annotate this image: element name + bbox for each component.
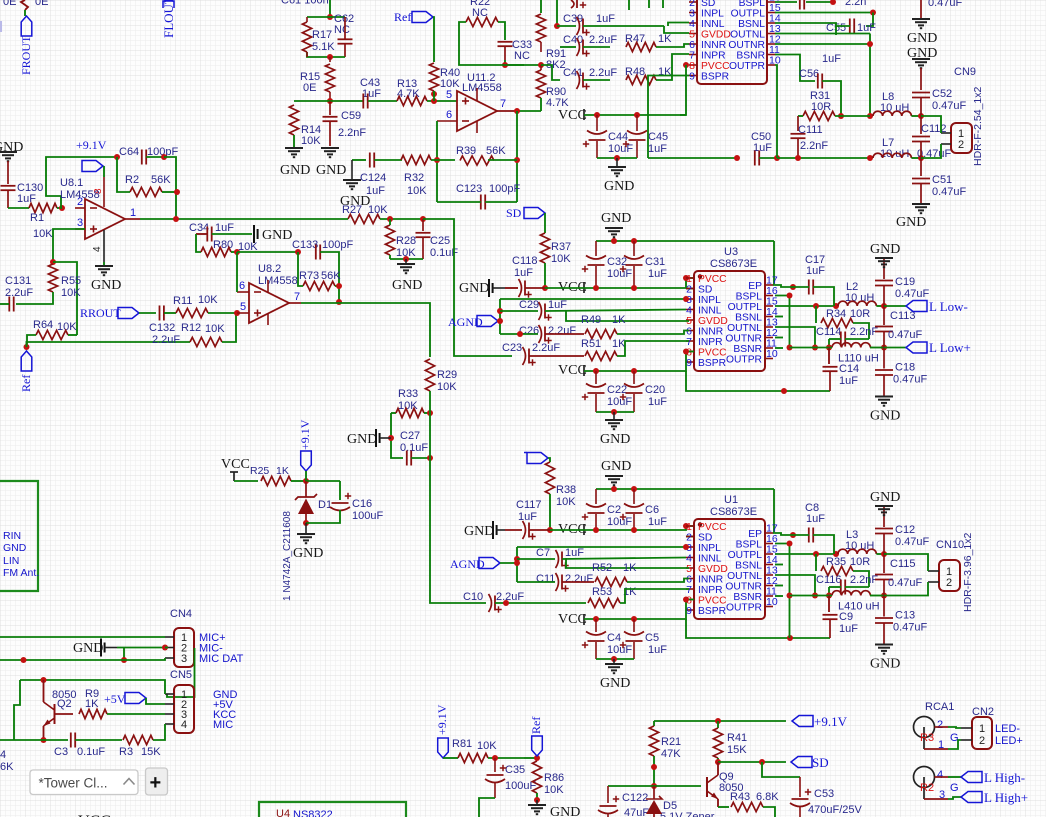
svg-text:+9.1V: +9.1V [435, 704, 449, 735]
svg-text:100pF: 100pF [322, 239, 353, 251]
U3 pin 9 BSPR [686, 361, 694, 363]
resistor R38 10K [545, 462, 554, 494]
svg-text:1uF: 1uF [565, 547, 584, 559]
svg-text:10R: 10R [850, 308, 870, 320]
svg-text:0E: 0E [3, 0, 16, 8]
capacitor C5 1uF [633, 619, 635, 632]
svg-text:MIC: MIC [213, 719, 233, 731]
U2 pin 13 OUTNL [767, 33, 775, 35]
svg-text:2: 2 [979, 735, 985, 747]
svg-text:SD: SD [506, 206, 522, 220]
svg-text:5: 5 [240, 301, 246, 313]
svg-text:GND: GND [3, 542, 27, 554]
resistor R17 5.1K [302, 22, 311, 52]
svg-text:C20: C20 [645, 384, 665, 396]
svg-text:10K: 10K [477, 740, 497, 752]
net flag L High+ [961, 792, 982, 803]
wire R29 bottom lead [429, 391, 431, 413]
wire [775, 285, 809, 287]
wire [390, 258, 423, 260]
U2 pin 6 INNR [689, 43, 697, 45]
wire [231, 251, 237, 253]
wire [806, 1, 833, 3]
wire OUTPL row [775, 553, 838, 555]
wire U2 pin10 down [775, 65, 777, 158]
wire pin6 loop [436, 121, 438, 202]
wire [380, 218, 423, 220]
svg-text:CS8673E: CS8673E [710, 258, 757, 270]
wire [656, 44, 689, 47]
ground GND under R28/C25 [405, 259, 407, 263]
svg-text:OUTPR: OUTPR [726, 355, 762, 366]
wire [500, 310, 538, 312]
node [303, 520, 309, 526]
svg-text:SD: SD [698, 533, 712, 544]
svg-text:3: 3 [181, 653, 187, 665]
svg-text:C31: C31 [645, 256, 665, 268]
U2 pin 12 OUTNR [767, 43, 775, 45]
wire BSNL stub [775, 564, 783, 566]
svg-text:GND: GND [907, 31, 937, 46]
svg-text:C19: C19 [895, 276, 915, 288]
svg-text:C32: C32 [607, 256, 627, 268]
wire [596, 411, 634, 413]
wire AGND rail [498, 320, 500, 322]
svg-text:GND: GND [870, 657, 900, 672]
svg-text:VCC: VCC [78, 813, 111, 817]
node [790, 532, 796, 538]
svg-text:R17: R17 [312, 29, 332, 41]
wire R33/C27 loop [391, 412, 396, 414]
wire [516, 111, 518, 202]
svg-text:0E: 0E [303, 82, 316, 94]
wire CN10 pin1 [884, 554, 928, 571]
wire [617, 331, 689, 335]
IC U2 CS8673E (clipped top) [697, 0, 767, 84]
svg-text:PVCC: PVCC [698, 348, 727, 359]
svg-text:CN10: CN10 [936, 539, 964, 551]
wire [498, 22, 505, 40]
wire VCC rail [584, 114, 686, 116]
wire R2 left [117, 157, 130, 192]
svg-text:INNL: INNL [701, 19, 725, 30]
wire C34/R80 left [196, 234, 201, 252]
wire [835, 115, 870, 117]
node [795, 155, 801, 161]
svg-text:OUTNL: OUTNL [727, 571, 762, 582]
wire [8, 207, 29, 209]
wire RCA1 pin1 to CN2 pin2 [924, 748, 948, 750]
U3 pin 7 INPR [686, 340, 694, 342]
svg-text:OUTPL: OUTPL [728, 302, 763, 313]
wire CN10 pin2 [884, 582, 928, 596]
svg-text:LIN: LIN [3, 555, 19, 567]
svg-text:U4: U4 [276, 808, 290, 817]
wire [320, 252, 339, 302]
svg-text:C52: C52 [932, 88, 952, 100]
svg-text:GVDD: GVDD [701, 30, 731, 41]
svg-text:INPR: INPR [701, 51, 726, 62]
node [594, 112, 600, 118]
node [918, 113, 924, 119]
node [514, 560, 520, 566]
U3 pin 1 PVCC [686, 277, 694, 279]
wire [433, 17, 434, 62]
svg-text:10: 10 [766, 596, 778, 608]
svg-text:47uF: 47uF [624, 807, 649, 817]
svg-text:1uF: 1uF [806, 513, 825, 525]
wire to Ref [27, 335, 36, 347]
node [542, 285, 548, 291]
node U3 pin3 [683, 296, 689, 302]
wire U2 pin14 [775, 23, 836, 26]
node [427, 455, 433, 461]
svg-text:C5: C5 [645, 632, 659, 644]
U3 pin 13 OUTNL [765, 326, 773, 328]
capacitor C9 1uF [828, 596, 830, 613]
wire [759, 157, 777, 159]
wire [75, 739, 122, 741]
wire [459, 42, 524, 65]
svg-text:C118: C118 [512, 255, 537, 267]
svg-text:9: 9 [686, 357, 692, 369]
node [497, 308, 503, 314]
svg-text:1uF: 1uF [514, 267, 533, 279]
capacitor C31 1uF [633, 241, 635, 256]
svg-text:1uF: 1uF [596, 13, 615, 25]
wire [836, 26, 850, 35]
svg-text:GVDD: GVDD [698, 316, 728, 327]
svg-text:0.1uF: 0.1uF [400, 442, 428, 454]
wire top rail U3 [596, 240, 774, 242]
svg-text:OUTNR: OUTNR [725, 334, 762, 345]
svg-text:0.47uF: 0.47uF [895, 536, 930, 548]
top partial capacitor [571, 0, 574, 8]
wire [560, 46, 576, 48]
U1 pin 1 PVCC [686, 525, 694, 527]
node [759, 759, 765, 765]
svg-text:C41: C41 [563, 67, 583, 79]
svg-text:OUTPR: OUTPR [726, 603, 762, 614]
wire [544, 213, 546, 233]
node [787, 345, 793, 351]
svg-text:C124: C124 [360, 172, 386, 184]
resistor R91 8K2 [536, 14, 545, 42]
U1 pin 3 INPL [686, 546, 694, 548]
wire U8.1 output to R27 [125, 218, 140, 220]
svg-text:U3: U3 [724, 246, 738, 258]
svg-text:BSPL: BSPL [736, 540, 763, 551]
wire MIC+ row [0, 636, 165, 638]
wire SD row [718, 761, 786, 763]
svg-text:10K: 10K [556, 496, 576, 508]
ground GND under C22/C20 [613, 412, 615, 419]
svg-text:10K: 10K [33, 228, 53, 240]
svg-text:1uF: 1uF [857, 22, 876, 34]
U11.2 pin 6 [437, 120, 457, 122]
svg-text:PVCC: PVCC [698, 274, 727, 285]
node [918, 155, 924, 161]
capacitor partial 2.2nF [799, 0, 801, 10]
svg-text:+5V: +5V [104, 692, 126, 706]
U1 pin 8 PVCC [686, 599, 694, 601]
U8.1 pin 3 [75, 228, 85, 230]
module box left (clipped) [0, 481, 38, 591]
wire [234, 480, 258, 482]
wire pin3 to R55 [53, 229, 85, 262]
svg-text:R39: R39 [456, 145, 476, 157]
node [162, 645, 168, 651]
node [593, 368, 599, 374]
wire MIC- to CN5 pin1 [167, 648, 195, 697]
svg-text:C22: C22 [607, 384, 627, 396]
svg-text:GND: GND [600, 432, 630, 447]
wire collector row [20, 680, 165, 694]
svg-text:R51: R51 [581, 338, 601, 350]
svg-text:0.47uF: 0.47uF [895, 288, 930, 300]
U8.2 pin 5 [237, 312, 249, 314]
svg-text:1K: 1K [623, 562, 637, 574]
U1 pin 12 OUTNR [765, 585, 773, 587]
wire [437, 201, 481, 203]
wire [139, 312, 156, 314]
wire [545, 333, 584, 335]
capacitor C18 0.47uF [883, 348, 885, 369]
wire [374, 159, 402, 161]
node [234, 249, 240, 255]
svg-text:FM Ant.: FM Ant. [3, 567, 39, 579]
svg-text:C133: C133 [292, 239, 318, 251]
wire [562, 581, 594, 583]
svg-text:U1: U1 [724, 494, 738, 506]
node [514, 157, 520, 163]
node [631, 238, 637, 244]
svg-text:2.2nF: 2.2nF [850, 326, 878, 338]
svg-text:5.1V Zener: 5.1V Zener [660, 811, 715, 817]
wire OUTPL row [775, 305, 838, 307]
svg-text:10uF: 10uF [607, 396, 632, 408]
svg-text:OUTPL: OUTPL [728, 550, 763, 561]
svg-text:+9.1V: +9.1V [298, 419, 312, 450]
svg-text:1: 1 [130, 207, 136, 219]
svg-text:10: 10 [766, 348, 778, 360]
svg-text:1uF: 1uF [648, 268, 667, 280]
wire GND branch [123, 648, 125, 661]
svg-text:C53: C53 [814, 788, 834, 800]
svg-text:2: 2 [946, 577, 952, 589]
svg-text:R12: R12 [181, 322, 201, 334]
svg-text:2: 2 [77, 196, 83, 208]
svg-text:GND: GND [601, 459, 631, 474]
svg-text:C34: C34 [189, 222, 209, 234]
svg-text:GND: GND [870, 409, 900, 424]
wire RCA2 pin3 to L High+ [924, 798, 948, 800]
wire loop bottom [307, 52, 345, 57]
node inverting input U8.1 [59, 205, 65, 211]
svg-text:C10: C10 [463, 591, 483, 603]
node [420, 216, 426, 222]
wire VCC to U3 pin8 [584, 352, 694, 372]
svg-text:U8.2: U8.2 [258, 263, 281, 275]
ground GND under C4/C5 [613, 659, 615, 663]
svg-text:C51: C51 [932, 174, 952, 186]
svg-text:INPR: INPR [698, 585, 723, 596]
svg-text:R28: R28 [396, 235, 416, 247]
svg-text:1uF: 1uF [362, 88, 381, 100]
svg-text:R34: R34 [826, 308, 846, 320]
wire R48 to pin7 [656, 54, 689, 80]
node [787, 593, 793, 599]
svg-text:1uF: 1uF [822, 53, 841, 65]
wire [557, 25, 576, 27]
svg-text:LM4558: LM4558 [462, 82, 502, 94]
node [403, 256, 409, 262]
svg-text:C16: C16 [352, 498, 372, 510]
svg-text:0.47uF: 0.47uF [893, 622, 928, 634]
svg-text:2.2nF: 2.2nF [800, 140, 828, 152]
svg-text:+: + [150, 772, 162, 794]
node [812, 345, 818, 351]
resistor R86 10K [532, 761, 541, 793]
capacitor C113 0.47uF [883, 306, 885, 325]
svg-text:RCA1: RCA1 [925, 701, 954, 713]
wire C3 row [0, 739, 68, 741]
node [881, 551, 887, 557]
svg-text:GND: GND [870, 490, 900, 505]
node [336, 283, 342, 289]
wire U2 pin15 [775, 12, 873, 14]
node U2 pin8 PVCC [683, 62, 689, 68]
node [517, 331, 523, 337]
svg-text:FROUT: FROUT [19, 35, 33, 75]
svg-text:GND: GND [459, 281, 489, 296]
svg-text:INNR: INNR [698, 327, 723, 338]
ground GND under C59 [321, 147, 339, 149]
svg-text:C9: C9 [839, 611, 853, 623]
svg-text:10K: 10K [437, 381, 457, 393]
wire [146, 156, 164, 158]
node [833, 303, 839, 309]
resistor R14 10K [289, 105, 298, 135]
resistor R28 10K [385, 225, 394, 255]
wire U2 pin9 to C50 [648, 76, 689, 159]
resistor R37 10K [540, 233, 549, 263]
svg-text:NS8322: NS8322 [293, 809, 333, 817]
node [826, 593, 832, 599]
wire [411, 457, 430, 459]
U1 pin 5 GVDD [686, 567, 694, 569]
wire C41 branch [541, 65, 560, 80]
node [387, 216, 393, 222]
wire OUTNR stub [775, 585, 783, 587]
svg-text:GND: GND [604, 179, 634, 194]
capacitor C2 10uF [595, 489, 597, 504]
svg-text:7: 7 [294, 291, 300, 303]
node [826, 345, 832, 351]
node [651, 764, 657, 770]
svg-text:G: G [950, 782, 959, 794]
svg-text:R49: R49 [581, 314, 601, 326]
wire x557 top [556, 0, 558, 26]
svg-text:C3: C3 [54, 746, 68, 758]
UI sheet selector tab [30, 768, 168, 795]
node [41, 677, 47, 683]
svg-text:3: 3 [77, 217, 83, 229]
node [631, 527, 637, 533]
svg-text:R52: R52 [592, 562, 612, 574]
U2 pin 4 INNL [689, 22, 697, 24]
svg-text:OUTPL: OUTPL [731, 9, 766, 20]
U8.1 pin 2 [75, 207, 85, 209]
node U1 pin8 [683, 597, 689, 603]
wire VCC to U3 pins 1/2 [545, 287, 584, 289]
U1 pin 2 SD [686, 536, 694, 538]
svg-text:9: 9 [689, 71, 695, 83]
wire row 660 [0, 658, 165, 660]
svg-text:BSPR: BSPR [701, 72, 729, 83]
resistor R21 47K [653, 721, 655, 726]
svg-text:5.1K: 5.1K [312, 41, 335, 53]
svg-text:BSNR: BSNR [733, 344, 762, 355]
wire [356, 159, 366, 161]
resistor R1 10K [29, 203, 57, 212]
resistor R90 4.7K [540, 65, 542, 70]
svg-text:9: 9 [686, 605, 692, 617]
svg-text:C132: C132 [149, 322, 175, 334]
wire [540, 98, 542, 111]
node [593, 527, 599, 533]
svg-text:L Low+: L Low+ [929, 340, 971, 355]
wire [517, 558, 555, 560]
wire [583, 79, 610, 81]
svg-text:1uF: 1uF [839, 623, 858, 635]
svg-text:4: 4 [937, 769, 943, 781]
wire BSNL stub [775, 316, 783, 318]
svg-text:PVCC: PVCC [701, 61, 730, 72]
wire stubs top [628, 0, 630, 10]
svg-text:GND: GND [262, 228, 292, 243]
node [336, 299, 342, 305]
svg-text:R1: R1 [30, 212, 44, 224]
svg-text:EP: EP [748, 281, 762, 292]
wire to C23 [423, 219, 512, 356]
svg-text:4: 4 [0, 749, 6, 761]
wire +9.1V row [654, 720, 786, 722]
node [787, 635, 793, 641]
svg-text:MIC DAT: MIC DAT [199, 653, 244, 665]
svg-text:VCC: VCC [558, 612, 587, 627]
svg-text:OUTNR: OUTNR [725, 582, 762, 593]
node [631, 285, 637, 291]
svg-text:C18: C18 [895, 362, 915, 374]
U3 pin 11 BSNR [765, 347, 773, 349]
capacitor C4 10uF [595, 619, 597, 632]
svg-text:C14: C14 [839, 363, 859, 375]
wire U8.2 output [289, 302, 301, 304]
U1 pin 6 INNR [686, 578, 694, 580]
wire [488, 159, 517, 161]
svg-text:R21: R21 [661, 736, 681, 748]
svg-text:Ref: Ref [394, 10, 411, 24]
node [173, 216, 179, 222]
svg-text:GND: GND [392, 278, 422, 293]
svg-text:10uF: 10uF [607, 644, 632, 656]
wire [164, 157, 176, 219]
capacitor C45 1uF [636, 115, 638, 131]
svg-text:C39: C39 [563, 13, 583, 25]
wire U2 pin16 [775, 1, 797, 3]
wire [146, 698, 165, 704]
